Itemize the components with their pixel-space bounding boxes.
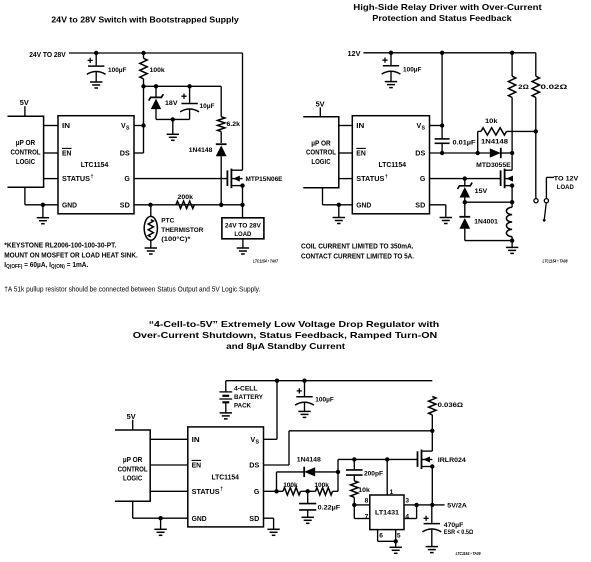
svg-text:Protection and Status Feedback: Protection and Status Feedback: [372, 14, 512, 23]
pin GND U1: [62, 202, 77, 209]
node junction sense-drain: [430, 429, 434, 433]
transistor Q3 IRLR024: [418, 450, 435, 470]
capacitor C6 0.22uF: [299, 491, 316, 517]
zener D1 18V: [149, 86, 164, 119]
inductor K1 relay coil: [506, 202, 512, 240]
label 2ohm R4: [518, 84, 529, 91]
wire 12V rail: [363, 52, 535, 54]
svg-text:200k: 200k: [178, 194, 194, 201]
wire VS 1: [134, 125, 144, 127]
svg-text:0.22µF: 0.22µF: [318, 504, 341, 511]
pin G U1: [124, 176, 130, 183]
op-amp U1 LTC1154 body: [58, 116, 134, 214]
wire pin7 U4: [354, 505, 370, 519]
node junction pin5-ground: [394, 539, 398, 543]
svg-text:LTC1154 • TA07: LTC1154 • TA07: [253, 259, 279, 264]
node junction pin3-pin4: [414, 503, 418, 507]
pin VS U2: [417, 123, 426, 131]
node junction coil-bottom: [510, 238, 514, 242]
svg-text:IQ(OFF) = 60µA, IQ(ON) = 1mA.: IQ(OFF) = 60µA, IQ(ON) = 1mA.: [4, 260, 88, 270]
svg-text:5V: 5V: [20, 100, 29, 107]
svg-text:LTC1154: LTC1154: [211, 475, 239, 482]
label 10k R6: [485, 118, 498, 125]
svg-text:G: G: [254, 489, 260, 496]
svg-text:COIL CURRENT LIMITED TO 350mA.: COIL CURRENT LIMITED TO 350mA.: [301, 241, 414, 250]
label 6.2k R2: [227, 121, 241, 128]
node junction gate-pin1: [385, 457, 389, 461]
svg-text:GND: GND: [192, 516, 207, 523]
wire ground stem U4: [395, 541, 397, 547]
wire drain vertical 3: [431, 431, 433, 451]
wire G 1: [134, 178, 227, 180]
svg-text:10µF: 10µF: [200, 103, 215, 110]
note coil current: [301, 241, 414, 250]
svg-text:100k: 100k: [283, 482, 298, 489]
label 100uF C1: [108, 67, 127, 74]
svg-text:STATUS: STATUS: [62, 176, 90, 183]
label uP OR CONTROL LOGIC 2: [306, 140, 336, 166]
ground GND 1: [37, 218, 49, 224]
pin 4 U4: [405, 514, 409, 521]
node junction 10k-pin8: [352, 503, 356, 507]
pin G U2: [420, 176, 426, 183]
svg-text:IN: IN: [192, 437, 200, 444]
pin EN U2: [356, 148, 366, 157]
label 100k R1: [150, 67, 165, 74]
svg-text:G: G: [420, 176, 426, 183]
label 200pF C7: [364, 470, 383, 477]
svg-text:S: S: [256, 439, 260, 445]
label 1N4148 D2: [189, 147, 213, 154]
pin 6 U4: [379, 533, 383, 540]
wire STATUS 2: [339, 178, 353, 180]
svg-text:24V TO 28V: 24V TO 28V: [225, 223, 261, 230]
block load 24V TO 28V: [222, 218, 264, 239]
label 100k R9: [314, 482, 329, 489]
svg-text:†: †: [385, 174, 388, 180]
pin EN U3: [192, 460, 202, 469]
note quiescent: [4, 260, 88, 270]
svg-text:1: 1: [390, 489, 394, 496]
wire diode branch vertical: [337, 459, 339, 491]
svg-text:LT1431: LT1431: [375, 510, 399, 517]
svg-text:“4-Cell-to-5V” Extremely Low V: “4-Cell-to-5V” Extremely Low Voltage Dro…: [149, 320, 440, 329]
diode D6 1N4148: [304, 467, 338, 477]
label 4-CELL BATTERY PACK: [234, 386, 263, 410]
svg-text:100µF: 100µF: [403, 67, 422, 74]
wire VS-DS column: [134, 86, 144, 153]
wire 5V tick 2: [319, 107, 321, 116]
capacitor C7 200pF: [346, 459, 363, 475]
wire G 2: [430, 178, 501, 180]
wire pin8 U4: [354, 504, 370, 506]
wire sense rail: [289, 415, 432, 431]
block microprocessor control logic 3: [115, 430, 150, 501]
svg-text:100k: 100k: [150, 67, 165, 74]
node junction output: [430, 503, 434, 507]
svg-text:STATUS: STATUS: [192, 489, 220, 496]
op-amp U3 LTC1154 body: [188, 427, 264, 527]
label 100k R8: [283, 482, 298, 489]
wire DS 3: [264, 431, 290, 465]
svg-text:PTC: PTC: [161, 218, 174, 225]
pin IN U1: [62, 123, 70, 130]
label 0.036ohm R7: [438, 402, 464, 409]
ground below zener rail: [167, 134, 179, 140]
svg-text:LOAD: LOAD: [234, 231, 251, 238]
code TA08: [543, 259, 569, 264]
wire IN 2: [339, 125, 353, 127]
resistor R10 10k: [351, 475, 358, 505]
wire contact to load: [546, 177, 554, 198]
svg-text:2Ω: 2Ω: [518, 84, 529, 91]
svg-text:0.01µF: 0.01µF: [453, 139, 476, 146]
resistor R5 0.02ohm: [532, 53, 539, 98]
node junction GND-ground 3: [158, 516, 162, 520]
label 0.02ohm R5: [541, 84, 569, 91]
pin 8 U4: [365, 497, 369, 504]
svg-text:*KEYSTONE RL2006-100-100-30-PT: *KEYSTONE RL2006-100-100-30-PT.: [4, 241, 116, 250]
wire 0.02ohm to contact: [535, 97, 537, 198]
svg-text:IN: IN: [62, 123, 70, 130]
svg-text:CONTROL: CONTROL: [11, 150, 41, 157]
ground SD 3: [267, 529, 279, 535]
node junction VS 2: [440, 123, 444, 127]
label LTC1154 U2: [379, 162, 407, 169]
label 1N4148 D6: [297, 457, 321, 464]
wire G row 3: [264, 490, 284, 492]
label 15V D4: [475, 188, 488, 195]
wire to load 1: [242, 205, 244, 218]
wire ground stem GND 1: [42, 205, 44, 218]
svg-text:LOAD: LOAD: [557, 184, 574, 191]
svg-text:†: †: [91, 174, 94, 180]
svg-text:10k: 10k: [485, 118, 498, 125]
svg-text:DS: DS: [120, 151, 130, 158]
node junction SD-diode: [219, 203, 223, 207]
wire SD 2: [430, 205, 446, 218]
svg-text:24V TO 28V: 24V TO 28V: [29, 52, 66, 59]
wire pin6 U4: [377, 530, 379, 542]
resistor R3 200k: [176, 201, 194, 208]
pin 7 U4: [365, 514, 369, 521]
label uP OR CONTROL LOGIC 3: [118, 457, 148, 483]
svg-text:and 8µA Standby Current: and 8µA Standby Current: [226, 342, 345, 351]
label 470uF C8: [444, 522, 474, 536]
svg-text:0.02Ω: 0.02Ω: [541, 84, 569, 91]
label 0.01uF C4: [453, 139, 476, 146]
wire ground stem coil: [511, 241, 513, 248]
label IRLR024 Q3: [438, 457, 466, 464]
diode D3 1N4148: [490, 148, 512, 158]
node junction rail3-C5: [302, 379, 306, 383]
net 24V TO 28V label: [29, 52, 66, 59]
svg-text:THERMISTOR: THERMISTOR: [161, 227, 203, 234]
svg-text:TO 12V: TO 12V: [554, 176, 579, 183]
net 5V label 1: [20, 100, 29, 107]
ground below PTC: [145, 248, 157, 254]
net 12V label: [348, 51, 361, 58]
label 0.22uF C6: [318, 504, 341, 511]
wire DS row 2: [430, 152, 490, 154]
svg-text:STATUS: STATUS: [356, 176, 384, 183]
wire ground stem load 1: [242, 239, 244, 248]
svg-text:1N4148: 1N4148: [297, 457, 321, 464]
wire SD row 1: [134, 204, 243, 206]
ground below C8: [426, 547, 438, 553]
wire source Q1: [242, 186, 244, 205]
wire source to coil row: [465, 186, 512, 203]
node junction zener-bottom: [171, 117, 175, 121]
pin SD U3: [249, 516, 259, 523]
node junction GND-ground 2: [337, 203, 341, 207]
node junction rail-C1: [94, 51, 98, 55]
svg-text:(100°C)*: (100°C)*: [161, 235, 190, 243]
svg-text:1N4001: 1N4001: [474, 218, 498, 225]
svg-text:µP OR: µP OR: [311, 140, 331, 147]
transistor Q1 MTP15N06E: [227, 169, 244, 189]
svg-text:6: 6: [379, 533, 383, 540]
node junction GND-ground 1: [41, 203, 45, 207]
ground below C5: [298, 411, 310, 417]
pin 1 U4: [390, 489, 394, 496]
label 18V: [165, 100, 178, 107]
node junction diode-anode: [336, 470, 340, 474]
net 5V label 2: [316, 101, 325, 108]
net 5V 2A label: [447, 503, 467, 510]
wire STATUS 3: [150, 490, 188, 492]
pin VS U3: [251, 437, 260, 445]
zener D4 15V: [458, 179, 473, 203]
wire GND 2: [323, 188, 353, 205]
svg-text:5V/2A: 5V/2A: [447, 503, 467, 510]
label 10uF C2: [200, 103, 215, 110]
node junction diode-drain: [510, 151, 514, 155]
svg-text:LTC1154: LTC1154: [379, 162, 407, 169]
svg-text:BATTERY: BATTERY: [234, 394, 263, 401]
svg-text:LTC1154 • TA08: LTC1154 • TA08: [543, 259, 569, 264]
svg-text:MTP15N06E: MTP15N06E: [246, 176, 283, 183]
svg-text:0.036Ω: 0.036Ω: [438, 402, 464, 409]
capacitor C5 100uF: [295, 381, 314, 412]
svg-text:CONTACT CURRENT LIMITED TO 5A.: CONTACT CURRENT LIMITED TO 5A.: [301, 251, 414, 260]
ground below C3: [385, 82, 397, 88]
ground below battery: [220, 413, 232, 419]
wire pin4 U4: [404, 505, 417, 519]
ground GND 3: [154, 529, 166, 535]
wire ground stem GND 3: [160, 518, 162, 529]
net 5V label 3: [127, 414, 136, 421]
svg-text:MTD3055E: MTD3055E: [476, 162, 511, 169]
svg-text:100µF: 100µF: [315, 397, 334, 404]
label PTC THERMISTOR: [161, 218, 203, 243]
svg-text:S: S: [422, 126, 426, 132]
pin VS U1: [121, 123, 130, 131]
pin 3 U4: [405, 497, 409, 504]
node junction 10uF top: [187, 84, 191, 88]
pin G U3: [254, 489, 260, 496]
wire gate row 3: [338, 458, 418, 460]
wire STATUS 1: [44, 178, 58, 180]
node junction zener top: [154, 84, 158, 88]
label LT1431 U4: [375, 510, 399, 517]
ground GND 2: [333, 218, 345, 224]
label 10k R10: [358, 487, 370, 494]
op-amp U2 LTC1154 body: [352, 116, 429, 214]
pin IN U2: [356, 123, 364, 130]
resistor R1 100k: [140, 53, 147, 86]
node junction rail-R1: [141, 51, 145, 55]
node junction rail3-VS: [275, 379, 279, 383]
svg-text:LTC1154 • TA09: LTC1154 • TA09: [456, 551, 482, 556]
title circuit 2: [353, 3, 542, 23]
capacitor C4 0.01uF: [435, 139, 450, 153]
label LTC1154 U3: [211, 475, 239, 482]
svg-text:LOGIC: LOGIC: [311, 159, 330, 166]
pin STATUS U1: [62, 174, 94, 183]
svg-text:3: 3: [405, 497, 409, 504]
wire coil bottom row: [465, 240, 512, 242]
wire drain Q1: [242, 53, 244, 170]
wire VS 3: [264, 381, 278, 440]
pin 5 U4: [397, 533, 401, 540]
svg-text:5: 5: [397, 533, 401, 540]
svg-text:LOGIC: LOGIC: [16, 159, 35, 166]
node junction G-diode: [274, 489, 278, 493]
capacitor C3 100uF: [382, 53, 401, 82]
wire pin5 U4: [378, 530, 396, 542]
wire pin3 U4: [404, 504, 417, 506]
note mount: [4, 250, 138, 259]
svg-text:S: S: [126, 126, 130, 132]
wire VS 2: [430, 53, 443, 139]
svg-text:CONTROL: CONTROL: [118, 466, 148, 473]
wire R9 to diode node: [333, 490, 339, 492]
svg-text:EN: EN: [356, 151, 366, 158]
pin DS U2: [415, 151, 425, 158]
wire IN 3: [150, 438, 188, 440]
block microprocessor control logic 1: [8, 116, 44, 187]
svg-text:100µF: 100µF: [108, 67, 127, 74]
wire diode to G: [277, 472, 305, 491]
svg-text:5V: 5V: [127, 414, 136, 421]
label MTP15N06E Q1: [246, 176, 283, 183]
svg-text:24V to 28V Switch with Bootstr: 24V to 28V Switch with Bootstrapped Supp…: [51, 16, 239, 25]
wire battery rail: [226, 380, 432, 382]
wire EN 3: [150, 464, 188, 466]
label TO 12V LOAD: [554, 176, 579, 191]
svg-text:GND: GND: [356, 202, 371, 209]
svg-text:SD: SD: [120, 202, 130, 209]
label uP OR CONTROL LOGIC 1: [11, 140, 41, 166]
node junction rail2-2ohm: [510, 51, 514, 55]
svg-text:18V: 18V: [165, 100, 178, 107]
svg-text:5V: 5V: [316, 101, 325, 108]
svg-text:EN: EN: [192, 463, 202, 470]
relay contact K1 left: [534, 199, 538, 203]
wire 5V tick 1: [24, 106, 26, 116]
capacitor C2 10uF: [180, 86, 199, 119]
pin GND U2: [356, 202, 371, 209]
node junction sense: [534, 129, 538, 133]
node junction rail2-VS: [440, 51, 444, 55]
pin IN U3: [192, 437, 200, 444]
svg-text:†: †: [220, 487, 223, 493]
ground below load 1: [237, 248, 249, 254]
svg-text:7: 7: [365, 514, 369, 521]
battery BT1 4-cell: [219, 381, 232, 413]
wire 24V supply rail: [69, 52, 243, 54]
svg-text:MOUNT ON MOSFET OR LOAD HEAT S: MOUNT ON MOSFET OR LOAD HEAT SINK.: [4, 250, 138, 259]
svg-text:12V: 12V: [348, 51, 361, 58]
node junction coil-top: [510, 200, 514, 204]
note dagger pullup: [4, 284, 260, 293]
node junction gate-200pF: [352, 457, 356, 461]
capacitor C8 470uF: [422, 505, 441, 547]
svg-text:200pF: 200pF: [364, 470, 383, 477]
ground below C6: [302, 517, 314, 523]
title circuit 1: [51, 16, 239, 25]
label 1N4001 D5: [474, 218, 498, 225]
node junction SD-source: [240, 203, 244, 207]
wire zener bottom rail: [156, 118, 190, 120]
wire zener top rail: [144, 85, 222, 87]
svg-text:1N4148: 1N4148: [481, 139, 508, 146]
svg-text:IN: IN: [356, 123, 364, 130]
wire output row: [417, 504, 445, 506]
node junction zener-anode: [463, 200, 467, 204]
note contact current: [301, 251, 414, 260]
pin GND U3: [192, 516, 207, 523]
svg-text:PACK: PACK: [234, 402, 251, 409]
node junction rail2-C3: [389, 51, 393, 55]
wire mid: [301, 490, 316, 492]
svg-text:High-Side Relay Driver with Ov: High-Side Relay Driver with Over-Current: [353, 3, 542, 12]
resistor R8 100k: [283, 488, 301, 495]
ground below U4: [390, 547, 402, 553]
svg-text:DS: DS: [249, 463, 259, 470]
wire GND 1: [25, 187, 58, 205]
svg-text:CONTROL: CONTROL: [306, 150, 336, 157]
svg-text:100k: 100k: [314, 482, 329, 489]
code TA07: [253, 259, 279, 264]
relay blade K1: [543, 203, 546, 222]
svg-text:ESR < 0.5Ω: ESR < 0.5Ω: [444, 529, 474, 536]
svg-text:µP OR: µP OR: [123, 457, 143, 464]
node junction mid-100k: [306, 489, 310, 493]
svg-text:6.2k: 6.2k: [227, 121, 241, 128]
pin STATUS U2: [356, 174, 388, 183]
node junction SD-PTC: [148, 203, 152, 207]
svg-text:15V: 15V: [475, 188, 488, 195]
svg-text:4: 4: [405, 514, 409, 521]
label 100uF C3: [403, 67, 422, 74]
diode D5 1N4001: [459, 202, 470, 240]
transistor Q2 MTD3055E: [501, 169, 515, 189]
wire source Q3 to output: [431, 467, 433, 505]
resistor R2 6.2k: [218, 86, 225, 143]
svg-text:µP OR: µP OR: [16, 140, 36, 147]
svg-text:8: 8: [365, 497, 369, 504]
wire pin1 U4: [386, 459, 388, 495]
label MTD3055E Q2: [476, 162, 511, 169]
node junction G-zener: [463, 176, 467, 180]
svg-text:IRLR024: IRLR024: [438, 457, 466, 464]
ground below coil: [506, 247, 518, 253]
resistor R9 100k: [316, 488, 333, 495]
block microprocessor control logic 2: [303, 117, 339, 188]
svg-text:LOGIC: LOGIC: [123, 476, 142, 483]
